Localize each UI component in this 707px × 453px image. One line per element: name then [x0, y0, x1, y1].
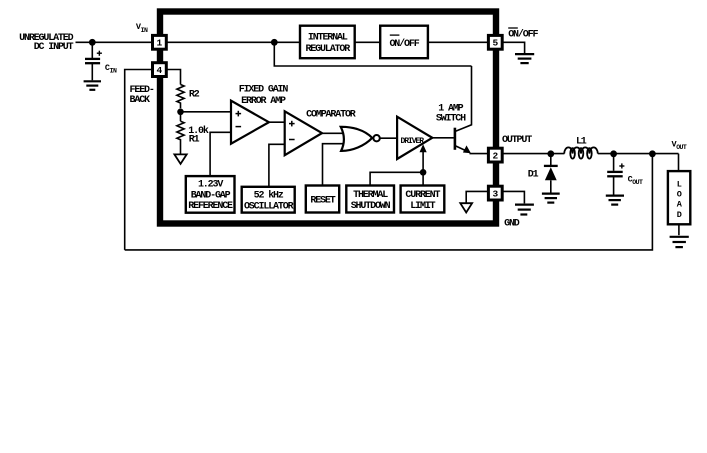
node feedback junction	[649, 150, 656, 157]
label 1 AMP SWITCH	[436, 104, 466, 125]
wire current limit to node	[422, 172, 424, 185]
svg-text:R2: R2	[189, 89, 200, 100]
capacitor CIN	[85, 59, 100, 80]
ground D1	[542, 194, 560, 203]
IC outline box	[160, 12, 496, 224]
NOR gate	[341, 127, 373, 151]
label FEED-BACK	[130, 85, 154, 106]
ground load	[670, 237, 689, 247]
box 1.23V BAND-GAP REFERENCE	[186, 176, 235, 213]
wire Vin to collector	[274, 42, 471, 66]
svg-text:FIXED GAIN: FIXED GAIN	[239, 85, 289, 96]
wire emitter to pin 2	[470, 153, 489, 155]
transistor Q1 base bar	[454, 128, 457, 150]
svg-text:CURRENT: CURRENT	[405, 190, 440, 201]
wire driver to base	[432, 137, 454, 139]
svg-text:GND: GND	[504, 219, 520, 230]
svg-text:IN: IN	[141, 27, 148, 34]
resistor R1	[177, 112, 184, 154]
svg-text:52 kHz: 52 kHz	[254, 190, 284, 202]
wire node to error amp	[181, 111, 232, 113]
ground CIN	[84, 81, 101, 90]
label VIN	[136, 22, 148, 34]
wire pin4 right to R2	[167, 70, 181, 85]
box INTERNAL REGULATOR	[300, 26, 355, 59]
wire Vout corner down to load	[678, 154, 680, 172]
emitter arrowhead	[463, 145, 471, 153]
wire node to COUT	[613, 154, 615, 171]
resistor R2	[177, 85, 184, 109]
diode D1	[544, 166, 558, 193]
svg-text:DRIVER: DRIVER	[401, 137, 425, 146]
svg-text:5: 5	[492, 38, 498, 49]
wire comparator to NOR	[322, 132, 343, 134]
error amp minus	[236, 126, 242, 128]
pin 2	[488, 148, 502, 162]
wire oscillator to comparator minus	[269, 144, 285, 186]
driver triangle	[397, 117, 432, 159]
svg-text:4: 4	[157, 65, 163, 76]
svg-text:2: 2	[492, 150, 498, 161]
svg-text:OUT: OUT	[632, 179, 643, 186]
svg-text:COMPARATOR: COMPARATOR	[306, 110, 356, 121]
label FIXED GAIN ERROR AMP	[239, 85, 289, 108]
inductor L1	[564, 147, 598, 158]
svg-text:DC INPUT: DC INPUT	[34, 42, 74, 53]
arrowhead into driver	[420, 144, 427, 152]
svg-text:3: 3	[492, 188, 498, 199]
svg-text:L1: L1	[576, 137, 587, 148]
svg-text:BACK: BACK	[130, 95, 151, 106]
box ON/OFF logic	[380, 26, 428, 59]
label VOUT	[672, 139, 687, 151]
wire regulator to on/off box	[355, 41, 381, 43]
op-amp comparator	[285, 111, 322, 155]
ground arrow under R1	[174, 154, 186, 164]
wire on/off box to pin 5	[428, 41, 488, 43]
capacitor COUT	[607, 172, 623, 195]
box RESET	[306, 186, 339, 213]
wire NOR to driver	[380, 137, 397, 139]
svg-text:1.23V: 1.23V	[198, 180, 223, 191]
svg-text:OUT: OUT	[676, 144, 687, 151]
wire Cin vertical top	[91, 42, 93, 58]
box LOAD	[668, 171, 690, 224]
comparator minus	[289, 139, 295, 141]
pin 5	[488, 35, 502, 49]
svg-text:LIMIT: LIMIT	[410, 201, 435, 212]
svg-text:R1: R1	[189, 134, 200, 145]
svg-text:SHUTDOWN: SHUTDOWN	[351, 201, 391, 212]
svg-text:OUTPUT: OUTPUT	[502, 135, 532, 146]
svg-text:SWITCH: SWITCH	[436, 113, 466, 124]
svg-text:BAND-GAP: BAND-GAP	[191, 190, 231, 201]
label ON/OFF external	[508, 28, 538, 40]
pin 3	[488, 186, 502, 200]
svg-text:RESET: RESET	[310, 196, 335, 207]
svg-text:ON/OFF: ON/OFF	[389, 38, 419, 50]
wire pin 2 to inductor	[503, 153, 565, 155]
wire pin1 to internal regulator	[166, 41, 300, 43]
wire pin4 left feedback down	[125, 70, 152, 250]
node D1	[547, 150, 554, 157]
NOR output bubble	[373, 135, 379, 141]
svg-text:REFERENCE: REFERENCE	[188, 201, 233, 212]
box 52 kHz OSCILLATOR	[242, 187, 295, 213]
wire load to ground	[678, 224, 680, 235]
box THERMAL SHUTDOWN	[346, 186, 394, 213]
wire pin 3 to ground right	[503, 191, 525, 203]
wire bandgap to error amp minus	[210, 132, 231, 176]
svg-text:THERMAL: THERMAL	[353, 190, 388, 201]
node Vin rail	[271, 39, 278, 46]
svg-text:IN: IN	[110, 68, 117, 75]
node COUT	[610, 150, 617, 157]
wire inductor to Vout corner	[598, 153, 679, 155]
transistor collector	[456, 66, 472, 131]
label UNREGULATED DC INPUT	[19, 33, 74, 53]
label CIN	[105, 63, 117, 75]
node R2/R1 junction	[177, 109, 184, 116]
wire error amp to comparator	[269, 121, 285, 123]
wire feedback bottom	[125, 154, 653, 250]
wire node to D1	[550, 154, 552, 165]
ground COUT	[606, 196, 624, 205]
wire reset to NOR	[323, 144, 344, 186]
op-amp error amp	[231, 101, 269, 144]
label COUT	[628, 174, 643, 186]
wire pin 5 to ground	[503, 42, 525, 53]
wire pin 3 to internal ground arrow	[466, 191, 488, 203]
pin 1	[153, 35, 167, 49]
ground pin 3	[515, 205, 534, 215]
svg-text:1: 1	[157, 38, 163, 49]
svg-text:ERROR AMP: ERROR AMP	[241, 96, 286, 107]
label R1 1.0k	[188, 125, 209, 146]
plus sign COUT	[619, 163, 624, 168]
plus sign CIN	[97, 51, 102, 56]
comparator plus	[289, 121, 295, 127]
node thermal/current junction	[420, 169, 427, 176]
transistor emitter	[456, 146, 470, 153]
svg-text:D1: D1	[528, 169, 539, 180]
svg-text:OSCILLATOR: OSCILLATOR	[244, 202, 294, 213]
node input/Cin junction	[89, 39, 96, 46]
error amp plus	[236, 111, 242, 117]
svg-text:REGULATOR: REGULATOR	[305, 44, 350, 55]
box CURRENT LIMIT	[401, 186, 445, 213]
wire node to driver arrow	[422, 151, 424, 173]
svg-text:ON/OFF: ON/OFF	[508, 28, 538, 40]
wire thermal shutdown to node	[370, 172, 423, 185]
ground arrow internal pin 3	[460, 203, 472, 212]
wire input to pin 1	[76, 41, 153, 43]
ground pin 5	[515, 54, 534, 63]
svg-text:INTERNAL: INTERNAL	[308, 32, 348, 43]
pin 4	[153, 63, 167, 77]
